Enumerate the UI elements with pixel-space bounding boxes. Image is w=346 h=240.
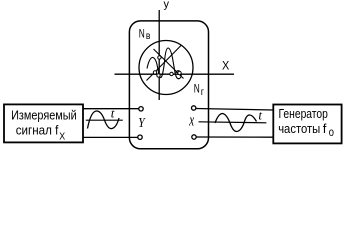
svg-text:N: N — [139, 27, 145, 41]
svg-text:t: t — [258, 107, 262, 122]
svg-text:частоты: частоты — [278, 121, 320, 136]
svg-text:y: y — [164, 0, 170, 10]
svg-text:г: г — [201, 87, 205, 98]
svg-text:X: X — [59, 131, 65, 142]
svg-text:в: в — [146, 31, 151, 42]
svg-text:N: N — [194, 82, 200, 96]
svg-text:о: о — [329, 125, 334, 139]
svg-text:f: f — [323, 121, 327, 136]
svg-text:x: x — [189, 111, 195, 130]
svg-text:Измеряемый: Измеряемый — [11, 108, 77, 123]
svg-text:X: X — [222, 58, 229, 72]
svg-text:t: t — [111, 106, 115, 121]
svg-text:сигнал f: сигнал f — [16, 123, 59, 138]
svg-text:Генератор: Генератор — [279, 106, 328, 121]
